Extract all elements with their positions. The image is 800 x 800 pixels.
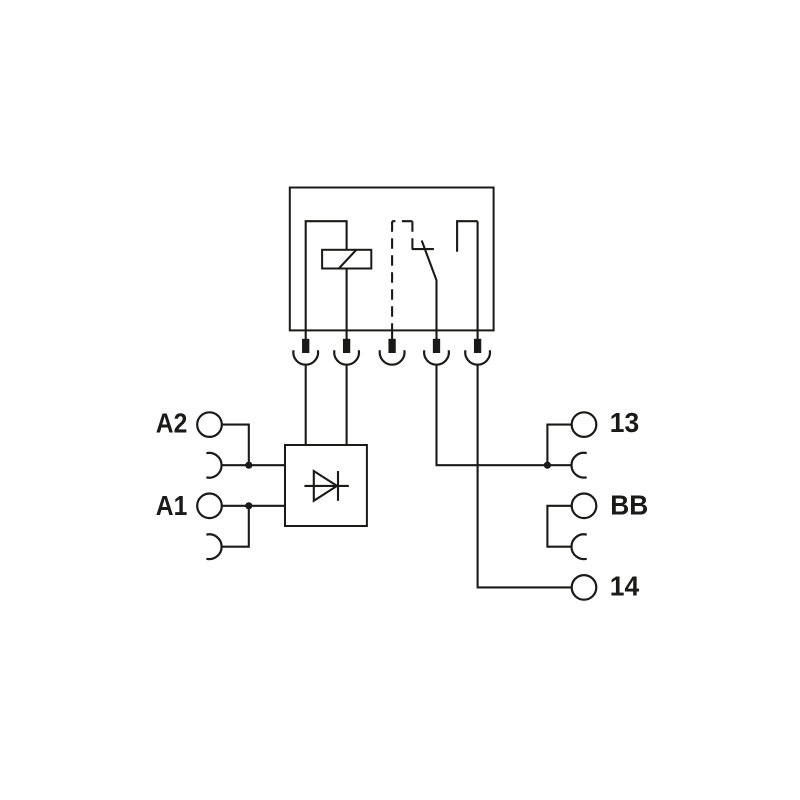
relay module outline [290, 188, 494, 331]
terminal A2 plug circle [197, 412, 222, 437]
svg-text:A1: A1 [156, 490, 188, 521]
wire coil bottom to pin 2 [346, 269, 348, 331]
terminal 14 plug circle [572, 575, 597, 600]
svg-text:14: 14 [610, 571, 640, 602]
socket arc BB [571, 534, 586, 559]
wire A2 circle to junction [222, 425, 249, 466]
socket arc 13 [571, 453, 586, 478]
socket arc terminal 5 [465, 350, 490, 364]
junction node A2 [245, 462, 252, 469]
socket arc A1 [206, 534, 221, 559]
switch blade Q (NO contact arm) [422, 241, 437, 331]
relay coil K1 [322, 250, 371, 269]
svg-text:BB: BB [610, 490, 648, 521]
wire pin 5 vertical inside box [477, 221, 479, 330]
terminal A1 plug circle [197, 494, 222, 519]
wire junction to 13 arc [547, 464, 571, 466]
wire terminal 5 to terminal 14 [478, 365, 572, 588]
junction node 13 [544, 462, 551, 469]
junction node A1 [245, 502, 252, 509]
socket arc terminal 1 [293, 350, 318, 364]
socket arc terminal 4 [424, 350, 449, 364]
wire BB bridge circle to arc [547, 506, 571, 547]
coil symbol diagonal stroke [339, 250, 357, 269]
plug pin terminal 1 [302, 339, 309, 353]
wire A2 arc to diode box [222, 464, 285, 466]
pin stub terminal 1 [305, 330, 307, 339]
plug pin terminal 3 [388, 339, 395, 353]
socket arc terminal 2 [334, 350, 359, 364]
contact fixed bar [412, 248, 434, 250]
wire terminal 1 to diode box [305, 365, 307, 445]
plug pin terminal 2 [343, 339, 350, 353]
plug pin terminal 4 [433, 339, 440, 353]
svg-text:13: 13 [610, 407, 639, 438]
diode module box [285, 445, 367, 526]
diode D1 [304, 471, 348, 501]
svg-text:A2: A2 [156, 407, 188, 438]
plug pin terminal 5 [474, 339, 481, 353]
wire 13 circle to junction [547, 425, 571, 466]
wire coil loop (pin1 branch up and across to coil top) [306, 221, 347, 330]
wire terminal 2 to diode box [346, 365, 348, 445]
pin stub terminal 2 [346, 330, 348, 339]
terminal 13 plug circle [572, 412, 597, 437]
pin stub terminal 4 [435, 330, 437, 339]
terminal BB plug circle [572, 494, 597, 519]
mechanical link (dashed) [392, 221, 412, 330]
NO contact hook [457, 221, 478, 252]
pin stub terminal 3 [391, 330, 393, 339]
pin stub terminal 5 [477, 330, 479, 339]
socket arc terminal 3 [380, 350, 405, 364]
wire A1 junction to arc [222, 506, 249, 547]
socket arc A2 [206, 453, 221, 478]
wire terminal 4 to node 13 [437, 365, 548, 466]
wire A1 circle to diode box [222, 505, 285, 507]
